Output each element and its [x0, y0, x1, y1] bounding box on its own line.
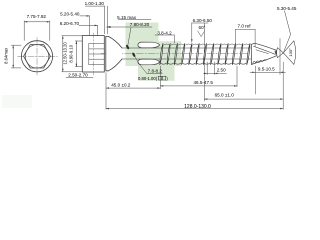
dim 8.64max line [12, 45, 14, 68]
drill point flute edge [254, 46, 276, 54]
svg-text:128.0-130.0: 128.0-130.0 [184, 104, 211, 110]
svg-text:5.15 max: 5.15 max [117, 15, 137, 20]
svg-text:12.50-13.20: 12.50-13.20 [63, 42, 68, 65]
dim 46.5-47.5 line [160, 85, 237, 87]
label 7.8-8.2 shelf and leader [147, 73, 162, 75]
bottom ext line mid thread [203, 23, 205, 101]
end view outer circle [21, 41, 52, 72]
leader 7.80-8.20 to shank [128, 27, 131, 45]
dim 12.50-13.20 line [62, 36, 64, 72]
screw head bugle profile [106, 36, 109, 70]
svg-text:46.5-47.5: 46.5-47.5 [193, 80, 213, 85]
dim 1.00-1.30 extension lines [104, 6, 106, 34]
svg-text:1.00-1.30: 1.00-1.30 [85, 1, 105, 6]
svg-text:2.50-2.70: 2.50-2.70 [68, 73, 88, 78]
thread crest arcs top [164, 44, 250, 45]
bottom ext line head face [105, 73, 107, 110]
dim 6.30-6.50 ext left [191, 23, 193, 42]
svg-text:45.0 ±0.2: 45.0 ±0.2 [111, 82, 131, 87]
dim 2.50 pitch line [204, 72, 227, 74]
bottom ext line thread start [159, 66, 161, 89]
highlight green swath top [126, 23, 159, 42]
label 7.80-8.20 shelf with left arrow [107, 26, 153, 28]
dim 7.75-7.92 extension lines [23, 21, 25, 41]
angle fan left wedge [277, 48, 284, 58]
svg-text:6.30-6.50: 6.30-6.50 [193, 18, 213, 23]
dim 7.75-7.92 line [24, 21, 50, 23]
svg-text:130°: 130° [288, 48, 293, 57]
screw axis centerline [101, 52, 293, 54]
leader 5.30-5.45 [284, 11, 291, 52]
neck core lines [122, 47, 255, 49]
dim 2.50 ext lines [206, 62, 208, 75]
svg-text:5.20-5.40: 5.20-5.40 [60, 12, 80, 17]
side view socket hidden lines [89, 43, 105, 45]
svg-text:7.80-8.20: 7.80-8.20 [130, 22, 150, 27]
dim 12.50-13.20 extension lines [62, 35, 82, 37]
drill point body [251, 43, 283, 64]
bottom ext line tip [282, 62, 284, 109]
svg-text:3.8-4.2: 3.8-4.2 [157, 30, 172, 35]
label 3.8-4.2 shelf and leader [155, 34, 174, 36]
dim 7.0ref shelf [236, 28, 256, 30]
dim 5.20-5.40 shelf [80, 15, 90, 17]
svg-text:9.5-10.5: 9.5-10.5 [258, 67, 275, 72]
drill point bottom scallops [253, 60, 267, 63]
leader arrowhead at shank lower [132, 52, 136, 57]
end view hex socket [24, 45, 51, 68]
svg-text:6.20-6.70: 6.20-6.70 [60, 21, 80, 26]
dim 128.0-130.0 line [106, 108, 283, 110]
svg-text:7.0 ref: 7.0 ref [237, 24, 251, 29]
dim 60 degree caret [198, 31, 205, 37]
centerline vertical of end view [36, 38, 38, 76]
centerline horizontal of end view [18, 55, 58, 57]
side view centerline [92, 33, 94, 75]
dim 8.64max extension lines [11, 44, 21, 46]
svg-text:0.80-1.00(: 0.80-1.00( [138, 76, 158, 81]
dim 9.5-10.5 line [250, 71, 286, 73]
leader arrowhead at shank upper [125, 44, 129, 49]
dim 1.00-1.30 shelf [86, 5, 105, 7]
angle fan right sector [283, 41, 295, 65]
dim 9.5-10.5 ext left [254, 66, 256, 94]
dim 45.0 line [106, 87, 160, 89]
label 5.15max shelf [118, 19, 151, 21]
head section side view rectangle [82, 36, 104, 72]
svg-text:2.50: 2.50 [217, 68, 226, 73]
dim 8.90-9.10 line [75, 41, 77, 67]
svg-text:7.75-7.92: 7.75-7.92 [27, 14, 47, 19]
thread crest arcs bottom [160, 63, 246, 64]
watermark faint [2, 95, 32, 108]
dim 6.20-6.70 shelf [79, 24, 98, 26]
end view inner circle [25, 45, 48, 68]
bottom ext line thread end [236, 66, 238, 87]
svg-text:65.0 ±1.0: 65.0 ±1.0 [215, 92, 235, 97]
highlight green swath middle [126, 41, 182, 66]
svg-text:7.8-8.2: 7.8-8.2 [148, 69, 163, 74]
dim 2.50-2.70 underline [66, 77, 93, 79]
dim 65.0 line [204, 98, 283, 100]
svg-text:8.90-9.10: 8.90-9.10 [69, 44, 74, 62]
drill point tip shade [275, 51, 283, 55]
highlight green swath lower labels [138, 66, 175, 81]
dim 6.30-6.50 shelf [192, 22, 208, 24]
drill point flute inner [256, 50, 269, 54]
dim 8.90-9.10 extension lines [75, 40, 82, 42]
svg-text:5.30-5.45: 5.30-5.45 [277, 6, 297, 11]
svg-text:60°: 60° [199, 25, 206, 30]
dim 7.0ref ext lines [235, 29, 237, 46]
svg-text:8.64max: 8.64max [4, 47, 9, 64]
fine thread cigar top [138, 42, 160, 48]
coarse thread coils [160, 43, 250, 64]
fine thread cigar bottom [138, 59, 160, 65]
